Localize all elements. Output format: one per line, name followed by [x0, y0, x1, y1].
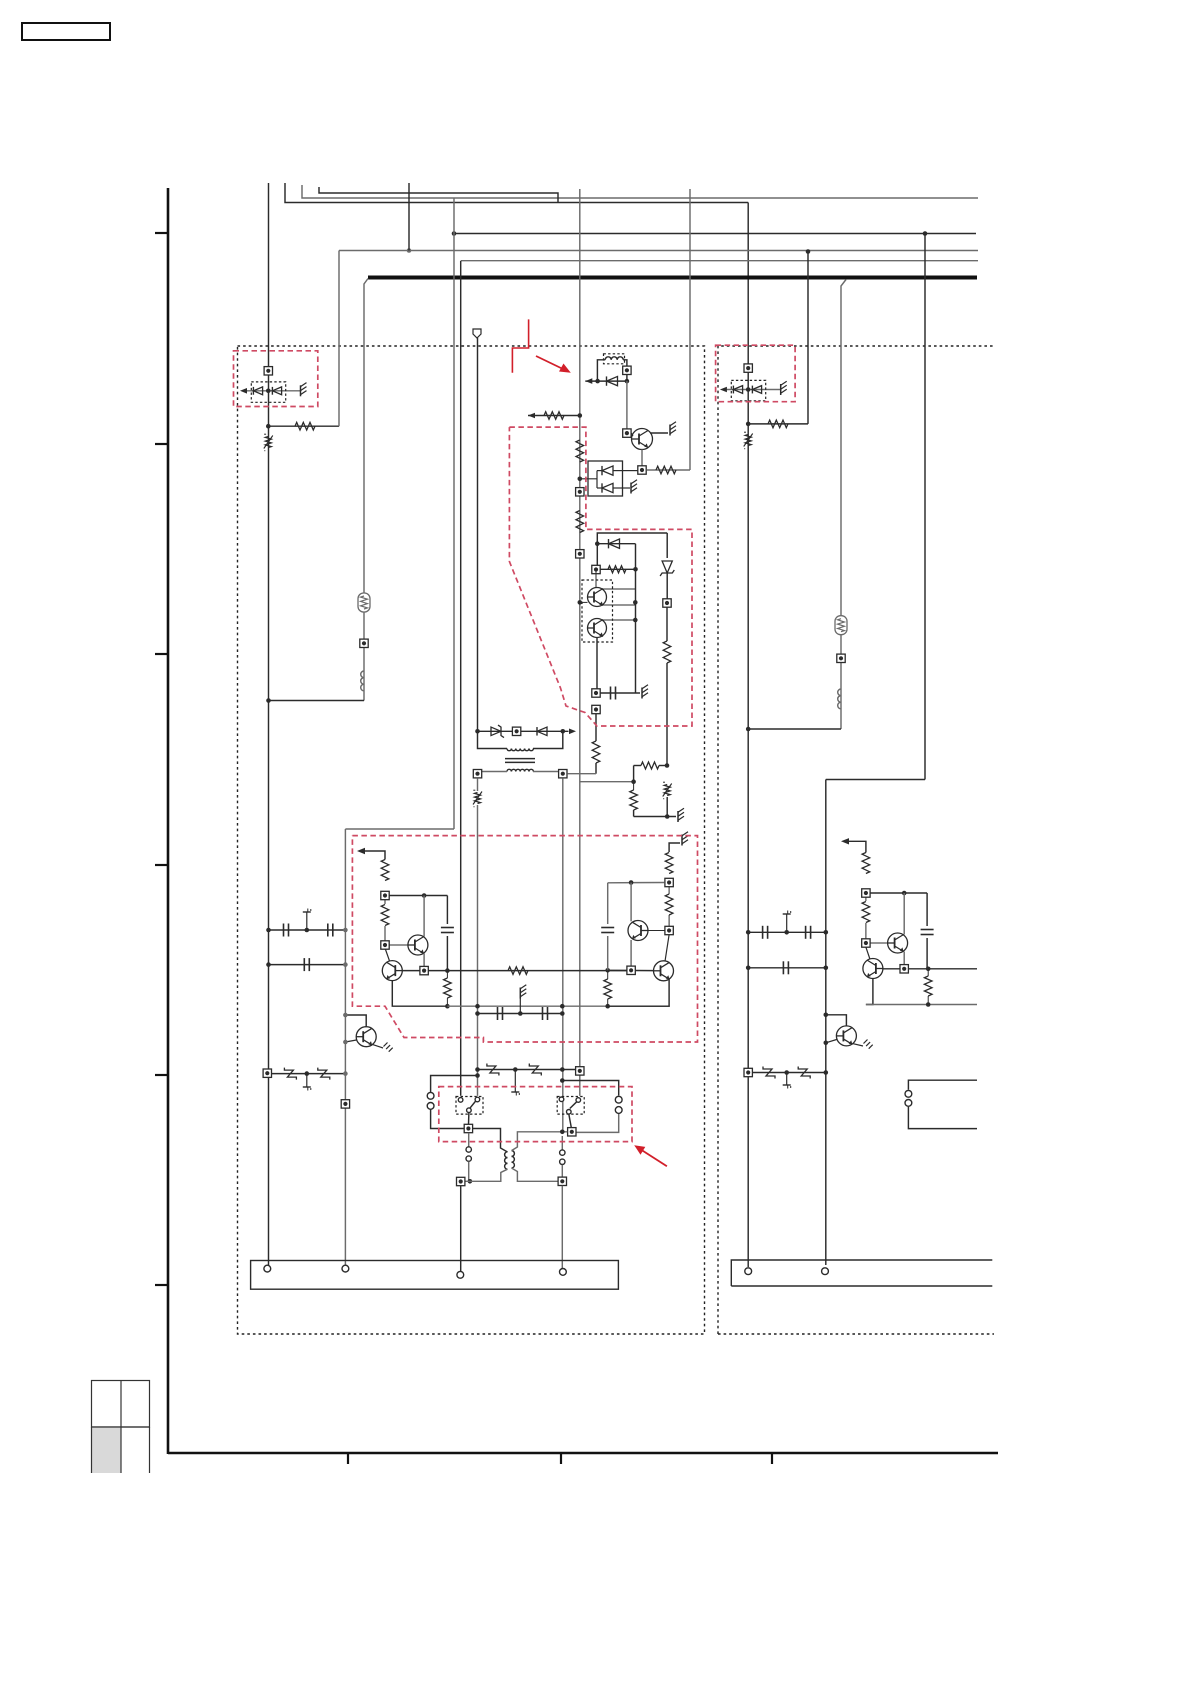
- wire vertical x461: [460, 261, 462, 1096]
- terminal square sec left: [473, 770, 481, 778]
- diode box D2 ground: [623, 480, 638, 494]
- primary diode row: [475, 725, 576, 738]
- terminal square pair1 a: [381, 891, 389, 899]
- frame tick left 5: [155, 1074, 168, 1076]
- cap row 2 left: [266, 958, 348, 971]
- z row right: [753, 1067, 828, 1079]
- terminal square pair1R a: [862, 889, 870, 897]
- ground pair2 top: [669, 832, 688, 852]
- wire bus E drop: [408, 183, 410, 251]
- transformer T1 secondary coil: [507, 769, 533, 771]
- cap row 1 ground: [303, 909, 311, 931]
- node chain bottom right: [746, 727, 751, 732]
- wire gray vertical x690: [689, 189, 691, 470]
- dotted box around diodes L: [251, 382, 285, 402]
- terminal square z-row L: [263, 1069, 271, 1077]
- wire Q1 base: [631, 433, 633, 436]
- relay diode row: [585, 376, 629, 385]
- connector pin 1: [264, 1265, 271, 1272]
- frame tick left 4: [155, 864, 168, 866]
- node bus x808: [806, 249, 811, 254]
- dotted box transistor pair mid: [582, 580, 613, 642]
- wire bus C bracket: [319, 187, 558, 203]
- resistor pair1R a: [862, 853, 870, 874]
- wire T2 bottom left: [465, 1169, 508, 1181]
- cap row 1 right: [746, 926, 828, 939]
- connector bracket right lower: [908, 1107, 977, 1129]
- wire bottom row: [447, 1004, 669, 1009]
- z row center: [475, 1064, 580, 1076]
- resistor loop top: [634, 762, 670, 782]
- frame tick bottom 1: [347, 1453, 349, 1464]
- wire T2 bottom right: [512, 1168, 558, 1181]
- resistor pair1 b: [381, 900, 389, 941]
- wire SW1 pole chain: [468, 1133, 470, 1147]
- node input L: [266, 424, 271, 429]
- transformer T1 secondary leads: [478, 772, 563, 774]
- transistor pair1R Q10: [863, 959, 883, 979]
- red arrow bottom: [634, 1145, 667, 1166]
- diode box: [588, 461, 623, 496]
- transistor Q3 mid: [588, 619, 607, 638]
- revision table bottom-left: [92, 1381, 150, 1474]
- dotted enclosure right block: [718, 346, 994, 1334]
- node x580 diode box: [578, 477, 583, 482]
- resistor x667: [663, 608, 671, 766]
- standby Q8 ground: [372, 1043, 392, 1052]
- terminal square left chain: [360, 639, 368, 647]
- arrow feed pair1: [357, 848, 385, 860]
- capacitor mid to ground: [601, 685, 649, 700]
- wire pair1R top row: [870, 891, 927, 896]
- red dashed outline protection: [509, 427, 692, 726]
- wire x618 down: [576, 1114, 619, 1132]
- wire q9 collector drop: [903, 952, 905, 965]
- wire sec2 top left: [473, 1129, 508, 1153]
- wire q6 collector drop: [630, 940, 632, 966]
- connector pin 6: [822, 1268, 829, 1275]
- surge diode row L: [240, 383, 307, 397]
- wire sec2 top right: [512, 1130, 568, 1151]
- wire gray vertical x454: [453, 198, 455, 829]
- frame tick bottom 2: [560, 1453, 562, 1464]
- terminal square x580 lower2: [576, 550, 584, 558]
- diode box D1 out: [623, 470, 638, 472]
- standby Q11 feed: [824, 1013, 847, 1026]
- transformer T1 core: [505, 759, 535, 763]
- wire chain chamfer right: [841, 280, 846, 730]
- red dashed outline switch: [439, 1087, 632, 1142]
- transistor Q2 mid: [588, 588, 607, 607]
- arrow resistor row x580: [528, 412, 582, 420]
- connector box left block: [251, 1261, 619, 1290]
- node bus D right: [923, 231, 928, 236]
- wire x580 stub to loop: [580, 779, 636, 784]
- dotted enclosure left block: [238, 346, 705, 1334]
- primary loop: [478, 731, 563, 748]
- wire chain bottom left: [269, 700, 365, 702]
- connector pins right a: [615, 1096, 622, 1113]
- resistor pair2 b: [665, 887, 673, 926]
- cap row 2 right: [746, 961, 828, 974]
- resistor pair1 c: [444, 971, 452, 1007]
- wire pair2 top row: [608, 880, 665, 885]
- standby transistor Q11: [836, 1026, 856, 1046]
- wire bus F gray: [461, 260, 978, 262]
- terminal square relay: [623, 366, 631, 374]
- terminal square x667: [663, 599, 671, 607]
- wire q5 emitter: [392, 981, 447, 1007]
- transistor pair1 Q5: [382, 961, 402, 981]
- frame tick left 3: [155, 653, 168, 655]
- wire x562 pin chain b: [561, 1165, 563, 1177]
- wire pair1R sq-q9: [870, 942, 887, 944]
- cap row 1 left: [266, 924, 348, 937]
- transformer T1 primary coil: [507, 749, 533, 751]
- wire SW1 pole chain b: [468, 1162, 473, 1184]
- z row right ground: [783, 1073, 791, 1089]
- resistor xfmr feed: [592, 714, 600, 774]
- terminal square T2 bl: [457, 1177, 465, 1185]
- red callout polyline top: [512, 319, 528, 372]
- driver transistor Q1: [632, 429, 653, 450]
- terminal square x345 low: [341, 1100, 349, 1108]
- frame tick left 6: [155, 1284, 168, 1286]
- wire Q2Q3 links: [596, 570, 638, 690]
- node bus E: [407, 248, 412, 253]
- frame tick left 1: [155, 232, 168, 234]
- capacitor pair1R: [921, 893, 934, 969]
- wire pair1 q top: [423, 896, 425, 937]
- connector pins right block: [905, 1090, 912, 1106]
- arrow feed pair1R: [841, 838, 866, 852]
- wire q7 emitter: [608, 979, 669, 1006]
- surge diode row R: [720, 381, 787, 395]
- wire T2 to connector left: [460, 1186, 462, 1271]
- resistor pair2 c: [604, 970, 612, 1006]
- connector bracket right: [908, 1080, 977, 1090]
- resistor x580 upper: [576, 440, 584, 462]
- page frame bottom border: [168, 1452, 998, 1455]
- wire T2 to connector right: [561, 1186, 563, 1268]
- connector box right block: [731, 1260, 992, 1286]
- switch SW2 pole: [569, 1114, 572, 1128]
- wire bus drop x925: [924, 234, 926, 780]
- diode box D1: [597, 466, 623, 475]
- fusible resistor right chain: [835, 616, 847, 635]
- capacitor pair1: [441, 896, 454, 971]
- wire bus vertical right drop: [747, 203, 749, 1268]
- red dashed box input L: [234, 351, 318, 407]
- wire pair1R q top: [903, 893, 905, 935]
- inductor left chain: [361, 671, 364, 691]
- standby Q11 ground: [853, 1040, 873, 1049]
- switch SW1: [458, 1097, 479, 1112]
- wire pair1 base row: [402, 966, 450, 974]
- wire pair1 sq-q4: [390, 944, 409, 946]
- wire x562 pin circles: [561, 1136, 563, 1150]
- connector pin 4: [560, 1269, 567, 1276]
- page frame left border: [167, 188, 170, 1454]
- wire left main vertical: [268, 183, 270, 1265]
- wire mid row resistor: [447, 967, 631, 975]
- wire x562 lower: [562, 778, 564, 1133]
- wire loop bottom: [634, 797, 684, 822]
- wire bus B gray: [302, 185, 978, 198]
- wire sec right to feed: [567, 773, 596, 775]
- terminal square SW1: [464, 1124, 472, 1132]
- dotted box around diodes R: [731, 380, 765, 400]
- wire jog x925 to x826: [826, 779, 925, 781]
- terminal square pair mid: [592, 565, 600, 573]
- resistor input row L: [268, 422, 339, 430]
- terminal square xfmr feed: [592, 705, 600, 713]
- terminal square x580 low: [576, 1067, 584, 1075]
- resistor x580 lower: [576, 511, 584, 533]
- connector pins left a: [427, 1092, 434, 1109]
- switch SW1 pole: [468, 1112, 470, 1124]
- wire pair2 sq-q6: [648, 930, 665, 932]
- red arrow top: [536, 356, 571, 373]
- node bus D left: [452, 231, 457, 236]
- terminal pentagon: [473, 329, 481, 731]
- resistor pair2 a: [665, 853, 673, 874]
- z row left ground: [303, 1074, 311, 1091]
- terminal square SW2: [568, 1128, 576, 1136]
- wire pair2 base row: [608, 966, 654, 974]
- terminal square pair2 a: [665, 878, 673, 886]
- terminal square cap row: [592, 689, 600, 697]
- terminal square pair2 b: [665, 926, 673, 934]
- terminal square sec right: [559, 770, 567, 778]
- resistor input row R: [748, 420, 808, 428]
- wire bus E gray: [339, 250, 978, 252]
- red dashed outline amp: [352, 836, 697, 1042]
- wire x635 vertical: [635, 544, 637, 693]
- connector pin 2: [342, 1265, 349, 1272]
- resistor loop left: [630, 782, 638, 810]
- protector thermistor R: [744, 432, 753, 449]
- protector thermistor L: [264, 434, 273, 451]
- standby Q11 base: [824, 1040, 837, 1046]
- zener column x667: [660, 533, 674, 599]
- transformer T2 right coil: [512, 1151, 515, 1168]
- frame tick left 2: [155, 443, 168, 445]
- terminal square Q1 collector: [638, 466, 646, 474]
- terminal square input L: [264, 367, 272, 375]
- node input R: [746, 422, 751, 427]
- terminal square T2 br: [558, 1177, 566, 1185]
- connector pin 5: [745, 1268, 752, 1275]
- clamp diode row: [597, 539, 635, 548]
- diode box rail: [580, 471, 597, 488]
- resistor pair1 a: [381, 860, 389, 881]
- wire bus D: [454, 233, 976, 235]
- wire gray vertical x580: [579, 189, 581, 1096]
- terminal square input R: [744, 364, 752, 372]
- switch SW1 box: [456, 1097, 483, 1115]
- wire chain chamfer left: [364, 279, 368, 701]
- wire bus drop x808: [807, 252, 809, 424]
- wire Q2 base node: [578, 600, 588, 605]
- cap row 1 right ground: [783, 911, 791, 933]
- wire pair1 top row: [390, 893, 448, 898]
- wire x339 drop: [338, 251, 340, 427]
- wire sqb-q5: [386, 950, 390, 962]
- red dashed box input R: [716, 345, 796, 402]
- capacitor pair2: [601, 883, 614, 971]
- terminal square pair1 b: [381, 941, 389, 949]
- terminal square right chain: [837, 654, 845, 662]
- wire chain bottom right: [748, 728, 841, 730]
- title box top-left: [22, 23, 110, 40]
- node chain bottom: [266, 698, 271, 703]
- protector sec left: [473, 790, 482, 807]
- terminal square x580 mid: [576, 488, 584, 496]
- wire Q1 collector: [641, 450, 643, 466]
- wire pair rail top: [595, 533, 667, 565]
- wire connector stub left: [431, 1073, 480, 1092]
- resistor Q1 collector row: [647, 466, 691, 474]
- wire bus stub A: [285, 183, 748, 203]
- wire sqb-q10: [866, 947, 870, 959]
- z row center ground: [511, 1070, 519, 1096]
- resistor pair mid row: [601, 566, 638, 573]
- transistor pair2 Q6: [628, 921, 648, 941]
- connector pin 3: [457, 1271, 464, 1278]
- wire x477 lower: [477, 778, 479, 1096]
- transistor pair1R Q9: [888, 933, 908, 953]
- wire bottom row right: [866, 1002, 977, 1007]
- wire Q2 collector: [603, 589, 638, 605]
- frame tick bottom 3: [771, 1453, 773, 1464]
- fusible resistor left chain: [358, 593, 370, 612]
- relay coil: [604, 354, 625, 364]
- wire sqb-q7: [665, 935, 669, 962]
- wire right inner vertical x826: [825, 780, 827, 1266]
- wire relay to base: [626, 381, 628, 429]
- switch SW2: [559, 1097, 580, 1114]
- thermistor loop: [663, 782, 672, 799]
- inductor right chain: [838, 689, 841, 709]
- wire gray vertical x345: [344, 829, 346, 1265]
- transistor pair2 Q7: [654, 961, 674, 981]
- standby transistor Q8: [356, 1027, 376, 1047]
- resistor pair1R c: [924, 969, 932, 1005]
- node pair1 bottom: [445, 1004, 450, 1009]
- switch SW2 box: [557, 1097, 584, 1115]
- wire Q1 emitter to ground: [650, 422, 676, 436]
- wire gray jog x454 to x345: [345, 828, 454, 830]
- relay leads: [597, 360, 627, 381]
- standby Q8 base: [343, 1040, 356, 1045]
- wire connector stub right: [560, 1078, 619, 1095]
- wire pin to SW1 pole: [431, 1110, 464, 1129]
- wire q4 collector drop: [423, 954, 425, 967]
- diode box D2: [597, 483, 623, 492]
- terminal square z-row R: [744, 1068, 752, 1076]
- pin circles right chain: [560, 1150, 565, 1165]
- power bus thick: [368, 276, 977, 280]
- transistor pair1 Q4: [408, 935, 428, 955]
- resistor pair1R b: [862, 898, 870, 939]
- standby Q8 feed: [343, 1013, 366, 1027]
- z row left: [272, 1068, 348, 1080]
- wire pair1R base row: [883, 965, 978, 973]
- wire q10 emitter: [866, 978, 873, 1004]
- terminal square pair1R b: [862, 939, 870, 947]
- transformer T2 left coil: [505, 1152, 508, 1169]
- terminal square driver base: [623, 429, 631, 437]
- pin circles left chain: [466, 1147, 471, 1162]
- wire pair2 q top: [630, 883, 632, 922]
- wire cap-ground row: [475, 985, 564, 1020]
